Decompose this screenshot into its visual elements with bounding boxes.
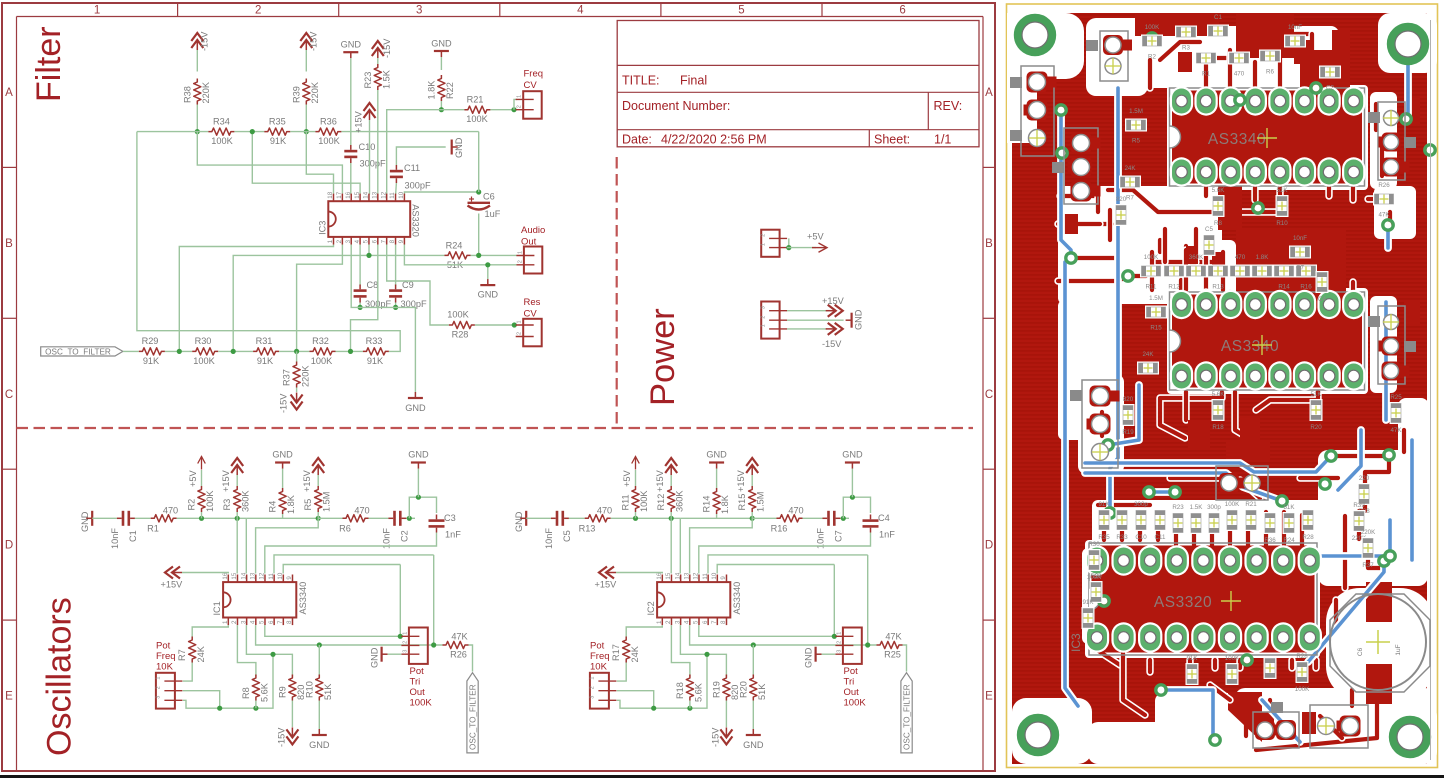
PCB smd 91K xyxy=(1082,607,1095,629)
net: R5 junction to pin13 xyxy=(256,518,319,573)
capacitor C3 1nF xyxy=(429,519,445,522)
connector +5V power header xyxy=(761,230,779,257)
svg-text:+15V: +15V xyxy=(655,469,665,492)
ground GND (C4) xyxy=(851,468,853,497)
ground GND (pot) xyxy=(814,647,816,662)
svg-text:1: 1 xyxy=(589,677,595,680)
junction xyxy=(651,706,656,711)
svg-text:R1: R1 xyxy=(147,524,159,534)
resistor R21 100K xyxy=(464,106,490,113)
resistor R13 470 xyxy=(585,515,611,522)
svg-text:B: B xyxy=(985,238,993,250)
svg-text:R14: R14 xyxy=(702,496,712,513)
svg-text:5.6K: 5.6K xyxy=(694,682,704,702)
svg-text:17: 17 xyxy=(336,191,343,198)
svg-text:R19: R19 xyxy=(711,681,721,698)
svg-text:R33: R33 xyxy=(366,336,383,346)
svg-text:-15V: -15V xyxy=(822,339,842,349)
capacitor C10 300pF xyxy=(344,150,357,153)
PCB smd R29 xyxy=(1090,581,1103,603)
svg-text:C11: C11 xyxy=(1155,534,1166,541)
svg-text:R21: R21 xyxy=(1245,501,1257,508)
net: pin9 / Audio GND route xyxy=(404,245,516,265)
svg-text:100K: 100K xyxy=(1225,501,1240,508)
PCB smd R26 xyxy=(1373,193,1395,206)
PCB smd 51K xyxy=(1283,512,1296,534)
svg-text:15: 15 xyxy=(354,191,361,198)
PCB smd 51K xyxy=(1310,399,1323,421)
svg-text:14: 14 xyxy=(674,572,681,579)
PCB smd C11 xyxy=(1154,509,1167,531)
svg-text:R28: R28 xyxy=(1296,653,1308,660)
resistor R16 470 xyxy=(777,515,803,522)
junction xyxy=(195,129,200,134)
svg-text:R38: R38 xyxy=(183,86,193,103)
wire xyxy=(92,517,117,519)
junction xyxy=(704,652,709,657)
svg-text:13: 13 xyxy=(372,191,379,198)
svg-text:Tri: Tri xyxy=(410,677,421,688)
junction xyxy=(348,349,353,354)
wire: main row xyxy=(611,517,681,519)
ground GND (C8/C9 net) xyxy=(408,397,423,399)
svg-text:11: 11 xyxy=(702,573,709,580)
svg-text:1.5M: 1.5M xyxy=(322,492,332,512)
wire xyxy=(255,701,257,709)
svg-text:12: 12 xyxy=(693,572,700,579)
svg-text:Res: Res xyxy=(524,297,541,308)
svg-text:A: A xyxy=(5,87,13,99)
svg-text:C7: C7 xyxy=(834,530,844,542)
svg-text:GND: GND xyxy=(405,403,426,413)
svg-text:91K: 91K xyxy=(257,356,274,366)
svg-text:6: 6 xyxy=(372,239,379,243)
resistor R39 220K xyxy=(303,79,310,105)
svg-text:1nF: 1nF xyxy=(445,530,461,540)
svg-text:13: 13 xyxy=(684,572,691,579)
supply +5V arrow xyxy=(819,243,828,252)
svg-text:15: 15 xyxy=(231,572,238,579)
svg-text:R7: R7 xyxy=(177,649,187,661)
svg-text:IC3: IC3 xyxy=(317,221,327,235)
svg-text:10nF: 10nF xyxy=(1293,235,1307,242)
wire xyxy=(440,57,442,70)
net: pot bottom xyxy=(617,654,707,708)
svg-text:GND: GND xyxy=(743,740,764,750)
svg-text:R31: R31 xyxy=(256,336,273,346)
svg-text:2: 2 xyxy=(761,234,767,237)
svg-text:-15V: -15V xyxy=(279,393,289,413)
wire xyxy=(787,247,816,249)
svg-text:+15V: +15V xyxy=(161,580,184,590)
svg-text:14: 14 xyxy=(240,572,247,579)
wire xyxy=(377,90,379,195)
svg-text:R35: R35 xyxy=(269,117,286,127)
svg-text:OSC_TO_FILTER: OSC_TO_FILTER xyxy=(468,684,477,750)
ground GND (R20) xyxy=(752,701,754,730)
svg-text:C2: C2 xyxy=(400,530,410,542)
supply +5V arrow xyxy=(635,470,637,486)
svg-text:1.5M: 1.5M xyxy=(1129,108,1143,115)
svg-text:R28: R28 xyxy=(1302,534,1314,541)
svg-text:TITLE:: TITLE: xyxy=(622,74,660,88)
PCB smd R16 xyxy=(1295,265,1317,278)
svg-text:R36: R36 xyxy=(320,117,337,127)
resistor R29 91K xyxy=(139,348,165,355)
PCB smd R39 xyxy=(1353,510,1366,532)
dashed separator horizontal xyxy=(17,427,974,429)
svg-text:R16: R16 xyxy=(1300,284,1312,291)
junction xyxy=(786,245,791,250)
junction xyxy=(750,516,755,521)
svg-text:100K: 100K xyxy=(844,698,867,709)
svg-text:47K: 47K xyxy=(1390,427,1402,434)
junction xyxy=(850,495,855,500)
net: R34/R35 junction to pin15 xyxy=(252,132,360,194)
svg-text:R16: R16 xyxy=(771,524,788,534)
svg-text:2: 2 xyxy=(336,239,343,243)
svg-text:A: A xyxy=(985,87,993,99)
resistor R34 100K xyxy=(208,128,234,135)
svg-text:+5V: +5V xyxy=(622,470,632,487)
PCB smd R13 xyxy=(1207,265,1229,278)
supply -15V arrow (osc) xyxy=(725,701,727,728)
svg-text:6: 6 xyxy=(268,620,275,624)
svg-text:100K: 100K xyxy=(1144,254,1159,261)
svg-text:1: 1 xyxy=(222,620,229,624)
svg-text:Freq: Freq xyxy=(590,651,610,662)
PCB mounting holes xyxy=(1018,18,1052,52)
resistor R30 100K xyxy=(192,348,218,355)
net: feedback loop xyxy=(137,132,400,352)
svg-text:5: 5 xyxy=(738,5,744,17)
title block xyxy=(617,21,979,147)
PCB smd part xyxy=(1264,657,1277,679)
net: R3 junction to pin15 xyxy=(236,518,238,573)
svg-text:360K: 360K xyxy=(1189,254,1204,261)
svg-text:470: 470 xyxy=(1234,71,1245,78)
svg-text:AS3340: AS3340 xyxy=(732,582,742,615)
PCB copper pour xyxy=(1012,13,1427,764)
PCB smd 1.8K xyxy=(1251,265,1273,278)
svg-text:R36: R36 xyxy=(1264,537,1276,544)
net: pin10 to pot connector xyxy=(283,565,400,574)
svg-text:D: D xyxy=(985,540,993,552)
ground GND (Audio Out) xyxy=(487,265,489,280)
svg-text:360K: 360K xyxy=(675,490,685,512)
svg-text:2: 2 xyxy=(517,260,523,263)
ground GND (C5 input) xyxy=(525,511,527,526)
net: C2/GND/C3 top xyxy=(843,497,870,518)
junction xyxy=(250,129,255,134)
svg-text:GND: GND xyxy=(272,450,293,460)
svg-text:R21: R21 xyxy=(467,95,484,105)
PCB red traces xyxy=(1202,184,1209,196)
junction xyxy=(317,642,322,647)
junction xyxy=(407,516,412,521)
svg-text:4: 4 xyxy=(684,620,691,624)
svg-text:5.6K: 5.6K xyxy=(1212,391,1226,398)
svg-text:GND: GND xyxy=(478,290,499,300)
wire xyxy=(822,653,836,655)
svg-text:R2: R2 xyxy=(187,499,197,511)
svg-text:8: 8 xyxy=(286,620,293,624)
svg-text:IC1: IC1 xyxy=(212,601,222,615)
junction xyxy=(751,642,756,647)
net: pin14 riser xyxy=(245,518,247,573)
svg-text:91K: 91K xyxy=(270,136,287,146)
junction xyxy=(253,706,258,711)
PCB smd R28 xyxy=(1302,509,1315,531)
svg-text:10: 10 xyxy=(711,572,718,579)
PCB smd 300p xyxy=(1135,509,1148,531)
wire xyxy=(478,214,480,256)
capacitor C2 10nF xyxy=(393,511,396,526)
wire xyxy=(350,58,352,145)
svg-text:Document Number:: Document Number: xyxy=(622,99,730,113)
net: pin1 to R17 xyxy=(626,625,662,636)
svg-text:8: 8 xyxy=(720,620,727,624)
wire xyxy=(135,517,151,519)
wire xyxy=(469,645,473,672)
svg-text:300pF: 300pF xyxy=(405,181,431,191)
svg-text:2: 2 xyxy=(255,5,261,17)
junction xyxy=(841,516,846,521)
wire xyxy=(788,238,790,247)
svg-text:8: 8 xyxy=(389,239,396,243)
junction xyxy=(633,516,638,521)
net: R5 junction to pin13 xyxy=(690,518,753,573)
svg-text:5: 5 xyxy=(363,239,370,243)
PCB board silk line xyxy=(1430,20,1432,760)
svg-text:12: 12 xyxy=(380,191,387,198)
svg-text:R30: R30 xyxy=(195,336,212,346)
svg-text:R5: R5 xyxy=(1132,138,1140,145)
svg-text:100K: 100K xyxy=(466,114,488,124)
resistor R7 24K xyxy=(189,637,196,663)
net: pin1 to R7 xyxy=(192,625,228,636)
svg-text:3: 3 xyxy=(345,239,352,243)
svg-text:+15V: +15V xyxy=(595,580,618,590)
svg-text:R15: R15 xyxy=(737,494,747,511)
svg-text:51K: 51K xyxy=(757,683,767,700)
junction xyxy=(511,107,516,112)
PCB smd R21 xyxy=(1245,509,1258,531)
net: pin1 under-IC route xyxy=(179,245,333,352)
resistor R10 51K xyxy=(318,645,320,677)
svg-text:C7: C7 xyxy=(1296,265,1304,272)
svg-text:24K: 24K xyxy=(1124,165,1136,172)
svg-text:24K: 24K xyxy=(1142,351,1154,358)
PCB smd 100K xyxy=(1140,265,1162,278)
resistor R20 51K xyxy=(752,645,754,677)
resistor R38 220K xyxy=(194,79,201,105)
resistor R35 91K xyxy=(264,128,290,135)
svg-text:R3: R3 xyxy=(222,499,232,511)
net: pin5 to pot pin1 xyxy=(699,625,835,636)
svg-text:100K: 100K xyxy=(311,356,333,366)
wire xyxy=(341,131,478,133)
svg-text:47K: 47K xyxy=(885,632,902,642)
wire xyxy=(406,517,415,519)
svg-text:B: B xyxy=(5,238,13,250)
svg-text:C11: C11 xyxy=(404,163,420,173)
net: pin11 to R25/R26 resistor xyxy=(274,555,434,574)
svg-text:10nF: 10nF xyxy=(1288,24,1302,31)
svg-text:GND: GND xyxy=(408,450,429,460)
PCB footprint AS3340 xyxy=(1172,91,1362,184)
resistor R6 470 xyxy=(343,515,369,522)
svg-text:47K: 47K xyxy=(1378,212,1390,219)
resistor R8 5.6K xyxy=(252,675,259,701)
svg-text:GND: GND xyxy=(842,450,863,460)
PCB smd 51K xyxy=(1276,195,1289,217)
supply -15V arrow (R23) xyxy=(372,41,384,49)
svg-text:7: 7 xyxy=(277,620,284,624)
svg-text:GND: GND xyxy=(706,450,727,460)
svg-text:820: 820 xyxy=(1116,196,1127,203)
junction xyxy=(235,516,240,521)
resistor R14 1.8K xyxy=(716,514,718,518)
svg-text:1: 1 xyxy=(155,677,161,680)
wire xyxy=(246,517,318,519)
capacitor C8 300pF xyxy=(359,245,361,286)
junction xyxy=(669,516,674,521)
svg-text:14: 14 xyxy=(363,191,370,198)
svg-text:R23: R23 xyxy=(1172,504,1184,511)
svg-text:300pF: 300pF xyxy=(360,159,386,169)
wire xyxy=(478,132,480,192)
svg-text:220K: 220K xyxy=(1361,529,1376,536)
ground GND (R4) xyxy=(282,468,284,488)
svg-text:3: 3 xyxy=(589,696,595,699)
wire xyxy=(752,517,776,519)
PCB red wedge bottom xyxy=(1228,692,1262,742)
wire xyxy=(369,120,371,195)
supply +15V arrow (pin14) xyxy=(364,103,376,111)
svg-text:AS3340: AS3340 xyxy=(298,582,308,615)
PCB smd 100K xyxy=(1226,663,1239,685)
PCB outline (yellow) xyxy=(1007,4,1438,768)
resistor R37 220K xyxy=(296,351,298,361)
junction xyxy=(476,189,481,194)
svg-text:-15V: -15V xyxy=(382,38,392,58)
svg-text:R20: R20 xyxy=(1310,424,1322,431)
svg-text:Pot: Pot xyxy=(590,641,605,652)
svg-text:Out: Out xyxy=(844,687,860,698)
svg-text:C1: C1 xyxy=(128,530,138,542)
svg-text:1.8K: 1.8K xyxy=(720,494,730,514)
svg-text:R35: R35 xyxy=(1098,534,1110,541)
supply -15V arrow (R37) xyxy=(296,388,298,393)
PCB smd R6 xyxy=(1259,50,1281,63)
svg-text:2: 2 xyxy=(517,105,523,108)
svg-text:Final: Final xyxy=(680,74,707,88)
PCB smd R25 xyxy=(1390,402,1403,424)
wire xyxy=(196,105,198,132)
IC VCO IC2 AS3340 xyxy=(657,582,730,617)
svg-text:5.6K: 5.6K xyxy=(1212,187,1226,194)
svg-text:C6: C6 xyxy=(483,192,495,202)
svg-text:IC2: IC2 xyxy=(646,601,656,615)
svg-text:3: 3 xyxy=(761,306,767,309)
svg-text:AS3320: AS3320 xyxy=(1154,594,1212,611)
junction xyxy=(199,516,204,521)
svg-text:3: 3 xyxy=(240,620,247,624)
wire xyxy=(475,324,517,326)
svg-text:D: D xyxy=(5,540,13,552)
wire pin5 tap xyxy=(368,245,370,256)
svg-text:C: C xyxy=(985,389,993,401)
svg-text:91K: 91K xyxy=(143,356,160,366)
PCB smd C4 xyxy=(1316,271,1329,293)
svg-text:R24: R24 xyxy=(1283,537,1295,544)
net: pin11 to R25/R26 resistor xyxy=(708,555,868,574)
wire xyxy=(395,183,398,195)
resistor R18 5.6K xyxy=(686,675,693,701)
PCB connector silkscreens xyxy=(1100,31,1128,81)
svg-text:C1: C1 xyxy=(1214,14,1222,21)
svg-text:R15: R15 xyxy=(1150,325,1162,332)
svg-text:1/1: 1/1 xyxy=(934,133,951,147)
svg-text:1: 1 xyxy=(761,324,767,327)
wire xyxy=(440,101,442,110)
net: chain to R24 (under IC) xyxy=(233,255,444,351)
schematic sheet frame xyxy=(2,3,995,771)
ground GND (power) xyxy=(850,313,852,328)
svg-text:100K: 100K xyxy=(1225,655,1240,662)
svg-text:470: 470 xyxy=(788,506,803,516)
svg-text:470: 470 xyxy=(1235,254,1246,261)
wire xyxy=(787,328,827,330)
svg-text:R39: R39 xyxy=(1353,502,1365,509)
svg-text:R8: R8 xyxy=(241,687,251,699)
svg-text:E: E xyxy=(5,691,13,703)
net: pin2 under-IC route xyxy=(297,245,343,352)
wire xyxy=(218,350,253,352)
svg-text:2: 2 xyxy=(517,332,523,335)
svg-text:GND: GND xyxy=(309,740,330,750)
net: pin4 to R10 / pot xyxy=(256,625,443,645)
capacitor C9 300pF xyxy=(395,245,397,286)
svg-text:GND: GND xyxy=(454,137,464,158)
svg-text:1: 1 xyxy=(517,251,523,254)
svg-text:+15V: +15V xyxy=(736,469,746,492)
svg-text:GND: GND xyxy=(854,309,864,330)
svg-text:51K: 51K xyxy=(1276,187,1288,194)
PCB vias xyxy=(1056,105,1066,115)
PCB red pad blocks xyxy=(1178,52,1192,72)
svg-text:R6: R6 xyxy=(1266,69,1274,76)
junction xyxy=(177,349,182,354)
svg-text:R18: R18 xyxy=(675,682,685,699)
IC op-amp filter U:IC3 AS3320 xyxy=(328,201,410,237)
svg-text:R37: R37 xyxy=(282,369,292,386)
svg-text:91K: 91K xyxy=(367,356,384,366)
svg-text:R17: R17 xyxy=(611,644,621,661)
resistor R26 47K xyxy=(443,641,469,648)
PCB smd 820 xyxy=(1115,204,1128,226)
svg-text:AS3340: AS3340 xyxy=(1208,131,1266,148)
net: pin3 to R9 xyxy=(246,625,292,676)
wire xyxy=(514,99,517,109)
svg-text:2: 2 xyxy=(761,316,767,319)
net: R34-R35-R36 row xyxy=(137,131,209,133)
svg-text:Out: Out xyxy=(410,687,426,698)
svg-text:Freq: Freq xyxy=(156,651,176,662)
svg-text:R5: R5 xyxy=(303,499,313,511)
svg-text:10nF: 10nF xyxy=(110,528,120,549)
